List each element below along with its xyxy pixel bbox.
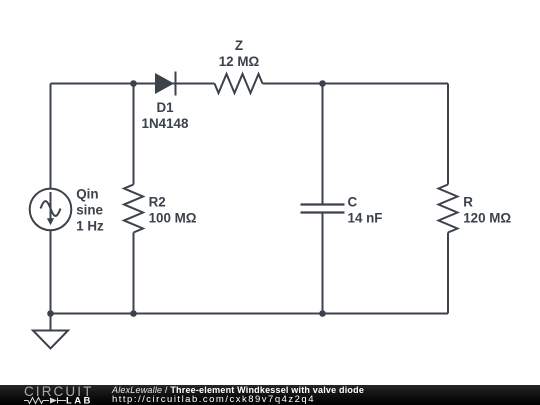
svg-text:14 nF: 14 nF <box>348 210 383 225</box>
svg-text:120 MΩ: 120 MΩ <box>463 210 511 225</box>
svg-text:R: R <box>463 194 473 209</box>
svg-text:100 MΩ: 100 MΩ <box>149 210 197 225</box>
svg-text:LAB: LAB <box>66 396 93 405</box>
svg-text:1N4148: 1N4148 <box>142 116 189 131</box>
svg-text:Z: Z <box>235 38 243 53</box>
svg-text:Qin: Qin <box>76 187 98 202</box>
svg-text:12 MΩ: 12 MΩ <box>219 54 260 69</box>
svg-text:D1: D1 <box>156 100 174 115</box>
svg-text:sine: sine <box>76 203 103 218</box>
svg-text:C: C <box>348 194 358 209</box>
svg-text:1 Hz: 1 Hz <box>76 219 104 234</box>
svg-text:R2: R2 <box>149 194 166 209</box>
